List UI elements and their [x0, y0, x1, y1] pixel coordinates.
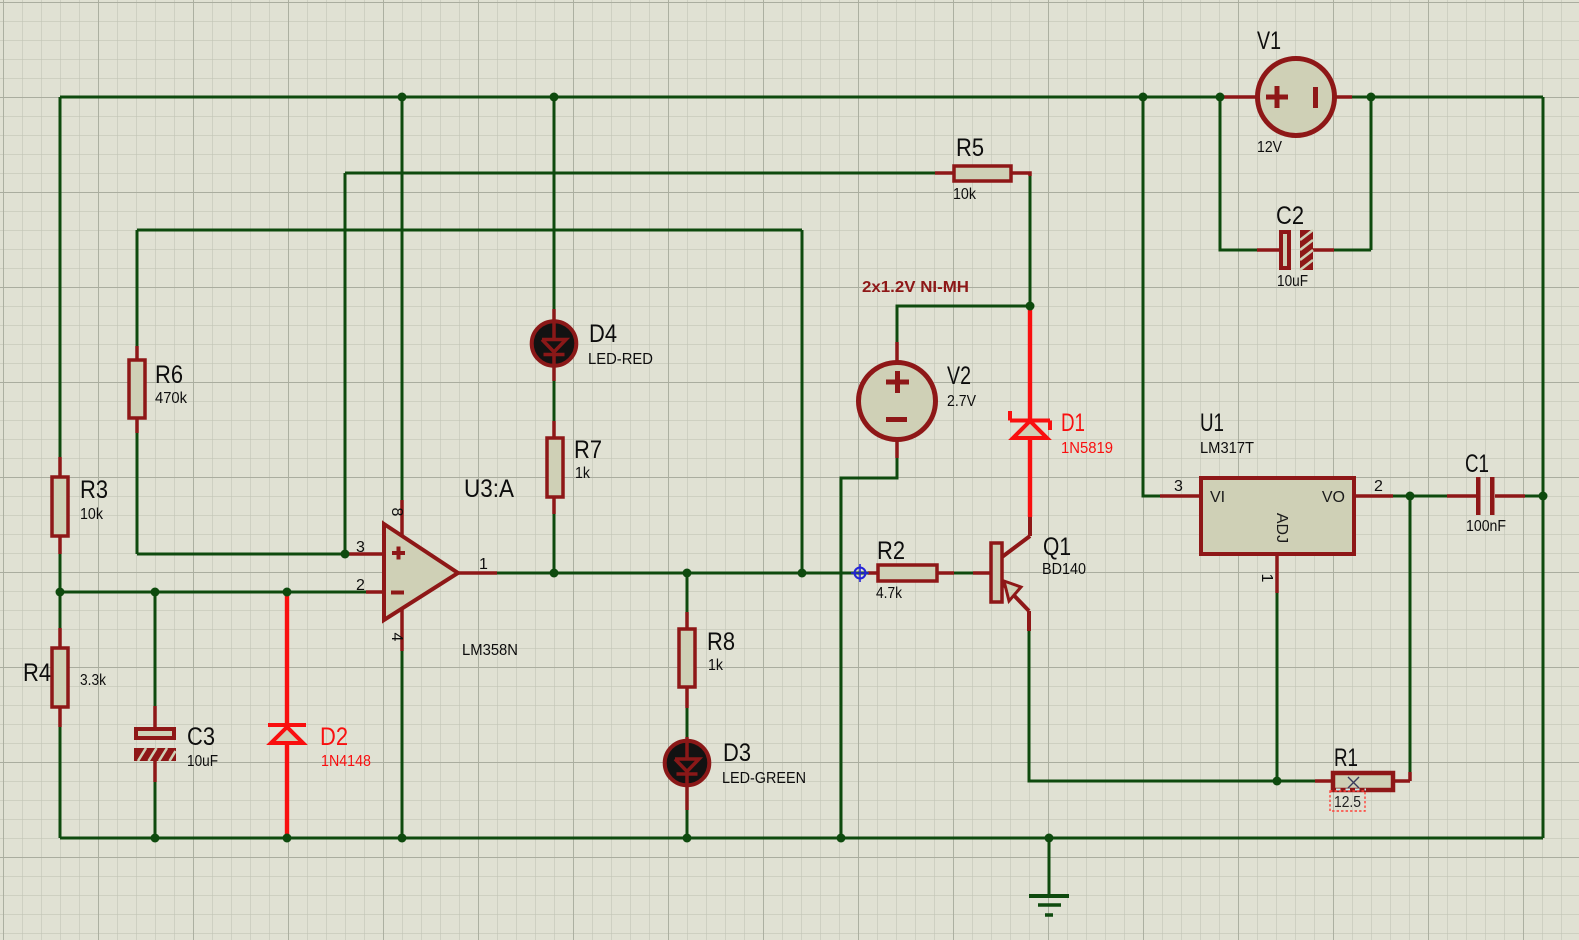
svg-text:R3: R3 [80, 476, 108, 504]
node battery / D1 / R5 [1026, 302, 1035, 311]
regulator U1 LM317T [1160, 409, 1393, 593]
node VO / C1 left [1406, 492, 1415, 501]
wire op-amp output row [497, 572, 870, 575]
node output / R7 [550, 569, 559, 578]
wire C2 branch [1220, 97, 1371, 250]
svg-text:2: 2 [1374, 478, 1383, 495]
svg-text:12.5: 12.5 [1334, 794, 1361, 811]
svg-text:VO: VO [1322, 489, 1345, 506]
node pin2 / D2 [283, 588, 292, 597]
svg-text:2: 2 [356, 577, 365, 594]
wire VI column [1143, 97, 1160, 496]
node ground rail / V2 [837, 834, 846, 843]
battery V2 2.7V [859, 342, 977, 458]
svg-text:1k: 1k [575, 465, 591, 482]
wire R8-D3 column [686, 573, 689, 838]
node top rail / D4 [550, 93, 559, 102]
svg-text:3: 3 [1174, 478, 1183, 495]
svg-text:C2: C2 [1276, 202, 1304, 230]
node output / R8 [683, 569, 692, 578]
wire pin4 column [401, 651, 404, 838]
node output / feedback [798, 569, 807, 578]
wire right border [1542, 97, 1545, 838]
op-amp U3:A LM358N [345, 475, 518, 659]
node top rail / pin8 [398, 93, 407, 102]
svg-text:4: 4 [388, 633, 405, 642]
node pin2 / C3 [151, 588, 160, 597]
svg-text:R2: R2 [877, 537, 905, 565]
node ground rail / D3 [683, 834, 692, 843]
node pin2 / R3-R4 [56, 588, 65, 597]
resistor R5 [935, 134, 1030, 203]
svg-text:10uF: 10uF [187, 753, 218, 770]
svg-text:R4: R4 [23, 659, 51, 687]
LED D3 LED-GREEN [665, 737, 806, 810]
svg-text:1N5819: 1N5819 [1061, 440, 1113, 457]
wire R6 column [137, 230, 345, 554]
wire ADJ column [1276, 593, 1279, 781]
svg-text:R1: R1 [1334, 744, 1358, 772]
svg-text:D2: D2 [320, 723, 348, 751]
node C1 right / border [1539, 492, 1548, 501]
svg-text:LED-RED: LED-RED [588, 351, 653, 368]
wire ground stem [1048, 838, 1051, 896]
svg-text:100nF: 100nF [1466, 518, 1506, 535]
resistor R7 [547, 421, 602, 514]
node ground rail / C3 [151, 834, 160, 843]
LED D4 LED-RED [532, 309, 653, 381]
svg-text:10k: 10k [80, 506, 104, 523]
svg-text:LM317T: LM317T [1200, 440, 1254, 457]
svg-text:R6: R6 [155, 361, 183, 389]
svg-text:ADJ: ADJ [1273, 513, 1290, 543]
wire R2 to Q1 base [954, 572, 973, 575]
svg-text:1: 1 [1258, 574, 1275, 583]
wire bottom ground rail [60, 837, 1543, 840]
origin marker (blue) [851, 564, 869, 582]
wire rail to R5 [345, 172, 935, 175]
wire left border (R3/R4 column) [59, 97, 62, 838]
capacitor C2 [1257, 202, 1334, 290]
ground [1029, 896, 1069, 915]
resistor R1 (selected) [1315, 744, 1410, 811]
node ADJ / R1 row [1273, 777, 1282, 786]
svg-text:4.7k: 4.7k [876, 585, 903, 602]
resistor R2 [868, 537, 954, 602]
svg-text:8: 8 [388, 508, 405, 517]
svg-text:R5: R5 [956, 134, 984, 162]
battery V1 12V [1222, 27, 1352, 156]
svg-text:2x1.2V NI-MH: 2x1.2V NI-MH [862, 279, 969, 296]
wire D4-R7 column [553, 97, 556, 573]
svg-text:V2: V2 [947, 362, 971, 390]
svg-text:LED-GREEN: LED-GREEN [722, 770, 806, 787]
node ground rail / ground symbol [1045, 834, 1054, 843]
wire VO node [1393, 495, 1543, 498]
svg-text:D3: D3 [723, 739, 751, 767]
wire VO drop to R1 [1409, 496, 1412, 772]
diode D1 1N5819 schottky [1010, 306, 1113, 517]
svg-text:470k: 470k [155, 390, 188, 407]
svg-text:V1: V1 [1257, 27, 1281, 55]
svg-text:C1: C1 [1465, 450, 1489, 478]
node pin3 junction [341, 550, 350, 559]
svg-text:U3:A: U3:A [464, 475, 514, 503]
wire vertical feedback x=345 [344, 173, 347, 554]
svg-text:10k: 10k [953, 186, 977, 203]
svg-text:1N4148: 1N4148 [321, 753, 371, 770]
wire R5 right drop to battery node [1029, 176, 1032, 306]
svg-text:U1: U1 [1200, 409, 1224, 437]
wire V2 battery net [841, 306, 1030, 838]
resistor R3 [52, 457, 108, 554]
wire top supply rail [60, 96, 1543, 99]
node ground rail / pin4 [398, 834, 407, 843]
wire rail3 R6 top [137, 229, 802, 232]
svg-text:VI: VI [1210, 489, 1225, 506]
wire Q1 emitter to R1 row [1029, 631, 1315, 781]
svg-text:D4: D4 [589, 320, 617, 348]
node ground rail / D2 [283, 834, 292, 843]
node top rail / V1 plus [1216, 93, 1225, 102]
svg-text:1: 1 [479, 556, 488, 573]
capacitor C3 [134, 706, 218, 782]
wire pin8 column [401, 97, 404, 500]
svg-text:3: 3 [356, 539, 365, 556]
svg-text:LM358N: LM358N [462, 642, 518, 659]
svg-text:1k: 1k [708, 657, 724, 674]
wire drop x=802 to output row [801, 230, 804, 573]
svg-text:10uF: 10uF [1277, 273, 1308, 290]
svg-text:BD140: BD140 [1042, 561, 1086, 578]
svg-text:C3: C3 [187, 723, 215, 751]
svg-text:12V: 12V [1257, 139, 1282, 156]
resistor R6 [129, 346, 188, 433]
resistor R8 [679, 612, 735, 708]
svg-text:2.7V: 2.7V [947, 393, 976, 410]
svg-text:R7: R7 [574, 436, 602, 464]
wire C3 column [154, 592, 157, 838]
svg-text:Q1: Q1 [1043, 533, 1071, 561]
diode D2 1N4148 [268, 592, 371, 838]
wire pin2 row [60, 591, 366, 594]
node top rail / VI column [1139, 93, 1148, 102]
capacitor C1 100nF [1447, 450, 1525, 535]
node top rail / V1 minus [1367, 93, 1376, 102]
svg-text:D1: D1 [1061, 409, 1085, 437]
transistor Q1 BD140 [973, 517, 1086, 631]
svg-text:3.3k: 3.3k [80, 672, 107, 689]
resistor R4 [23, 628, 107, 727]
svg-text:R8: R8 [707, 628, 735, 656]
